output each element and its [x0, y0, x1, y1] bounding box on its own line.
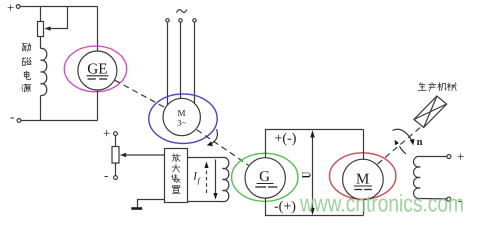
源 [22, 84, 31, 92]
GE underline [87, 75, 109, 77]
label 放大装置 [172, 154, 181, 194]
terminal circles 3-phase [166, 19, 169, 22]
wire GE top lead [97, 7, 99, 52]
load production machine symbol [414, 96, 447, 127]
inductor GE field coil [41, 48, 47, 95]
svg-text:-: - [10, 109, 14, 124]
wire bottom-left bus [21, 120, 98, 122]
inductor G field winding [222, 157, 228, 201]
rotation arrow at M3~ [212, 129, 218, 143]
wire GE bottom lead [97, 90, 99, 121]
wire phase A [167, 22, 169, 105]
wire rheostat to coil [40, 37, 42, 49]
wire M field coil top [420, 156, 447, 158]
磁 [22, 58, 31, 66]
svg-text:+: + [457, 149, 464, 164]
装 [172, 175, 181, 183]
svg-text:M: M [356, 172, 369, 188]
svg-text:+(-): +(-) [275, 132, 297, 147]
arrow If dashed up [206, 165, 208, 193]
terminal circle field - [447, 197, 451, 201]
wire phase B [180, 22, 182, 98]
shaft dashed M3~ to G [197, 130, 249, 166]
resistor potentiometer body [112, 147, 119, 164]
highlight ellipse magenta around GE [64, 46, 126, 92]
label U rotated [300, 172, 314, 179]
G double dash [255, 186, 266, 188]
shaft dashed GE to M3~ [115, 80, 166, 108]
svg-text:3~: 3~ [177, 118, 186, 128]
rotation arc upper n [393, 129, 412, 139]
machine G generator circle [245, 158, 285, 198]
resistor rheostat body [38, 22, 44, 37]
label ~ (ac supply) [177, 10, 187, 13]
pot wiper arrowhead [120, 153, 126, 158]
terminal circle field + [447, 155, 451, 159]
GE double dash [88, 78, 96, 80]
wire G top lead [265, 130, 267, 158]
svg-text:www.cntronics.com: www.cntronics.com [299, 191, 464, 218]
生 [418, 83, 426, 91]
机 [438, 83, 447, 91]
machine GE exciter circle [78, 51, 117, 90]
wire amplifier out top [188, 157, 223, 159]
svg-text:U: U [300, 172, 314, 179]
svg-text:M: M [177, 108, 185, 118]
wiper arrowhead [44, 26, 50, 31]
svg-text:+: + [103, 126, 110, 141]
wire M bottom lead [363, 200, 365, 216]
wire M top lead [363, 130, 365, 161]
wire bottom bus G to M [265, 215, 364, 217]
ground [131, 207, 142, 210]
wire wiper branch [50, 7, 68, 29]
voltage arrow U double-headed [312, 134, 314, 211]
大 [172, 164, 180, 172]
wire pot top [115, 136, 117, 147]
terminal circle pot bottom [114, 176, 118, 180]
highlight ellipse blue around M3~ [149, 94, 217, 144]
svg-text:G: G [259, 169, 270, 185]
arrow If solid down [215, 160, 217, 196]
inductor M field winding [414, 156, 421, 198]
wire rheostat drop [40, 7, 42, 23]
wire M field coil bottom [420, 198, 447, 200]
machine M 3~ induction motor circle [163, 98, 200, 135]
svg-text:-(+): -(+) [274, 200, 296, 215]
svg-text:-: - [104, 168, 108, 183]
wire phase C [194, 22, 196, 103]
wire coil to bottom bus [40, 96, 42, 121]
shaft dashed M to load [378, 127, 421, 164]
svg-text:GE: GE [87, 61, 107, 78]
wire amplifier to ground [138, 200, 165, 208]
置 [172, 186, 180, 193]
wire top-left horizontal bus [20, 6, 97, 8]
产 [429, 82, 436, 91]
svg-text:n: n [417, 137, 423, 148]
machine M dc motor circle [343, 159, 384, 200]
highlight ellipse green around G [232, 153, 298, 201]
M underline [354, 185, 372, 187]
amplifier box 放大装置 [165, 149, 188, 203]
wire amplifier out bottom [188, 201, 223, 203]
rotation arc lower [400, 146, 406, 154]
terminal circle bottom-left [17, 119, 21, 123]
svg-text:+: + [7, 0, 14, 15]
wire pot wiper to amplifier [126, 154, 165, 156]
wire pot bottom [115, 163, 117, 176]
highlight ellipse red around M [330, 153, 396, 199]
G underline [257, 183, 274, 185]
放 [172, 154, 180, 162]
label 生产机械 [418, 82, 456, 91]
械 [447, 83, 456, 91]
terminal circle top-left [16, 5, 20, 9]
wire top bus G to M [265, 129, 364, 131]
label 励磁电源 (excitation power source) [22, 43, 31, 92]
电 [24, 71, 30, 79]
terminal circle pot top [114, 132, 118, 136]
M double dash [354, 189, 362, 191]
励 [22, 43, 31, 51]
wire G bottom lead [265, 198, 267, 215]
